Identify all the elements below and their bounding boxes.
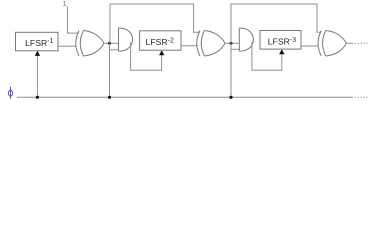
dotted continuation out (355, 42, 369, 44)
svg-text:LFSR-3: LFSR-3 (268, 37, 297, 47)
D-gate G2 (239, 28, 253, 51)
wire LFSR-1 output to XOR1 bottom input (58, 45, 76, 47)
D-gate G1 (119, 28, 133, 51)
arrowhead clock LFSR-2 (159, 50, 164, 55)
svg-text:LFSR-1: LFSR-1 (25, 38, 54, 48)
LFSR-2 box U2 (140, 31, 181, 50)
phi clock symbol (8, 87, 12, 99)
junction dot clock bus 3 (229, 96, 232, 99)
arrowhead clock LFSR-3 (279, 49, 284, 54)
wire XOR3 output continuation (346, 42, 353, 44)
clock bus bottom (17, 96, 353, 98)
xor gate X1 (76, 31, 104, 57)
xor gate X2 (197, 31, 225, 57)
node junction dot J2 (230, 42, 233, 45)
wire clock loop to LFSR-2 (131, 42, 162, 70)
wire top feedforward loop 1 (110, 4, 200, 43)
wire LFSR-3 output to XOR3 bottom input (301, 45, 319, 47)
LFSR-3 box U3 (260, 31, 301, 50)
wire top feedforward loop 2 (231, 4, 321, 43)
wire LFSR-2 output to XOR2 bottom input (181, 45, 197, 47)
svg-text:1: 1 (63, 0, 67, 8)
junction dot clock bus 2 (108, 96, 111, 99)
wire input 1 to XOR1 top (68, 7, 79, 34)
svg-text:LFSR-2: LFSR-2 (146, 37, 175, 47)
arrowhead clock LFSR-1 (35, 51, 40, 56)
node junction dot J1 (108, 42, 111, 45)
wire J2 down to clock bus (230, 43, 232, 97)
wire lower input of D1 (110, 49, 119, 51)
wire J1 down to clock bus (109, 43, 111, 97)
wire clock to LFSR-1 (36, 53, 38, 97)
LFSR-1 box U1 (16, 32, 59, 51)
dotted continuation clock bus (355, 96, 369, 98)
wire clock loop to LFSR-3 (252, 42, 282, 70)
wire lower input of D2 (231, 48, 239, 50)
wire XOR1 output to AND bar (104, 42, 119, 44)
xor gate X3 (318, 31, 346, 57)
junction dot clock bus 1 (36, 96, 39, 99)
wire XOR2 output to D2 bar (225, 42, 239, 44)
